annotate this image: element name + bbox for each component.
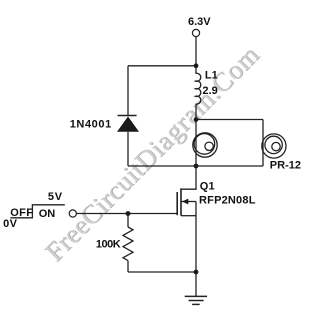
svg-text:100K: 100K <box>96 239 121 251</box>
svg-text:Q1: Q1 <box>200 181 215 193</box>
svg-text:L1: L1 <box>205 70 218 82</box>
svg-text:2.9: 2.9 <box>202 85 217 97</box>
svg-text:FreeCircuitDiagram.Com: FreeCircuitDiagram.Com <box>39 39 265 267</box>
svg-text:ON: ON <box>39 208 56 220</box>
svg-text:1N4001: 1N4001 <box>70 119 112 131</box>
svg-text:6.3V: 6.3V <box>188 16 211 28</box>
svg-text:PR-12: PR-12 <box>270 160 301 172</box>
svg-text:0V: 0V <box>3 218 18 230</box>
svg-text:RFP2N08L: RFP2N08L <box>199 195 256 207</box>
svg-text:5V: 5V <box>48 191 63 203</box>
